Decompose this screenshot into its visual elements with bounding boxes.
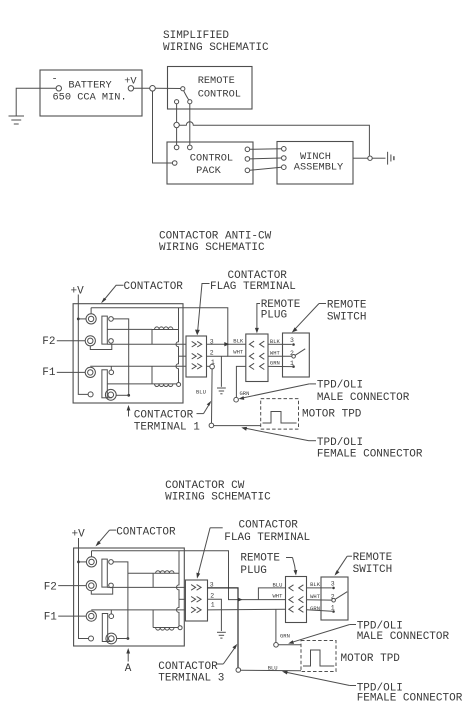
wire terminal1 top stub to inner +V wire <box>90 308 92 314</box>
remote switch box (bot) <box>321 577 348 620</box>
remote switch box (mid) <box>283 333 310 377</box>
contactor flag terminal block (mid) <box>186 336 207 377</box>
svg-text:WHT: WHT <box>310 593 321 600</box>
svg-text:F1: F1 <box>44 612 58 624</box>
plug chevrons row 3 (bot) <box>289 606 304 612</box>
node: inline connector on left drop <box>174 122 179 127</box>
winch assembly box <box>277 142 353 185</box>
svg-text:REMOTE: REMOTE <box>198 75 235 87</box>
contactor coil-end circle terminal (mid) <box>177 383 181 387</box>
svg-text:WHT: WHT <box>270 350 281 357</box>
svg-text:REMOTE: REMOTE <box>353 552 393 564</box>
title: SIMPLIFIED WIRING SCHEMATIC <box>163 30 269 54</box>
svg-text:1: 1 <box>211 602 215 609</box>
wire pack to winch 3 <box>250 167 282 170</box>
wire node to remote control <box>155 87 180 89</box>
TPD/OLI MALE CONNECTOR label (mid) <box>239 380 410 404</box>
TPD/OLI FEMALE CONNECTOR label (bot) <box>282 671 463 705</box>
svg-text:PLUG: PLUG <box>240 565 266 577</box>
junction dot +V to terminal 1 <box>77 318 80 321</box>
winch terminal 2 <box>282 156 287 161</box>
svg-text:REMOTE: REMOTE <box>327 299 367 311</box>
svg-text:FLAG TERMINAL: FLAG TERMINAL <box>224 532 310 544</box>
svg-text:WHT: WHT <box>233 349 244 356</box>
control pack top terminal right <box>188 145 193 150</box>
motor TPD dashed box (mid) <box>261 399 299 430</box>
wire GRN node to motor TPD (bot) <box>278 644 301 646</box>
svg-text:TERMINAL 1: TERMINAL 1 <box>134 422 200 434</box>
contactor terminal F2 big (bot) <box>86 581 96 591</box>
svg-text:SIMPLIFIED: SIMPLIFIED <box>163 30 229 42</box>
wire terminal1 top stub (bot) <box>91 551 93 557</box>
flag chevrons row 2 (mid) <box>192 353 202 359</box>
wire branch to top coil left (bot) <box>128 572 153 574</box>
svg-text:CONTACTOR: CONTACTOR <box>239 520 299 532</box>
stationary contact 2a (bot) <box>109 614 114 619</box>
svg-text:+V: +V <box>71 285 85 297</box>
wire flag2 to ground tap (bot) <box>208 599 222 631</box>
svg-text:ASSEMBLY: ASSEMBLY <box>294 162 343 174</box>
contactor coil-end circle terminal (bot) <box>178 626 182 630</box>
ground (battery) <box>9 116 25 124</box>
svg-text:A: A <box>125 663 132 675</box>
junction dot at bottom terminal wire <box>127 394 130 397</box>
+V rail (bot) <box>79 538 89 639</box>
motor TPD waveform (bot) <box>303 650 334 666</box>
switch blade (bot) <box>335 592 347 600</box>
svg-text:650 CCA MIN.: 650 CCA MIN. <box>53 92 127 104</box>
plug chevrons row 2 (mid) <box>249 353 264 359</box>
svg-text:SWITCH: SWITCH <box>327 311 367 323</box>
switch pin 3 contact (mid) <box>292 343 295 346</box>
remote control switch blade <box>184 91 189 100</box>
switch pin 2 contact (bot) <box>332 598 336 602</box>
contactor terminal F2 big (mid) <box>85 336 95 346</box>
svg-text:F2: F2 <box>44 581 57 593</box>
CONTACTOR label (bot) <box>96 527 177 547</box>
wire row3 bar to flag terminal 3 (bot) <box>107 586 185 588</box>
wire node down to control pack left terminal <box>153 91 173 163</box>
wire plug to switch row1 (mid) <box>268 343 292 345</box>
svg-text:PLUG: PLUG <box>261 309 287 321</box>
wire remote control left contact down <box>176 104 178 123</box>
wire battery positive to node <box>134 87 150 89</box>
svg-text:GRN: GRN <box>280 632 290 639</box>
winch terminal 3 <box>282 165 287 170</box>
contactor terminal +V big (mid) <box>86 314 96 324</box>
node: battery + junction connector <box>150 86 156 92</box>
svg-text:3: 3 <box>290 337 294 344</box>
flag chevrons row 3 (mid) <box>192 341 202 347</box>
svg-text:CONTACTOR: CONTACTOR <box>116 527 176 539</box>
svg-text:CONTROL: CONTROL <box>198 89 241 101</box>
stationary contact 1b (bot) <box>109 583 114 588</box>
CONTACTOR label (mid) <box>101 281 183 303</box>
svg-text:BLK: BLK <box>310 581 321 588</box>
REMOTE SWITCH label (mid) <box>292 299 367 332</box>
wire GRN drop to node (bot) <box>275 609 277 642</box>
stationary contact 1a (bot) <box>109 560 114 565</box>
node: GRN male connector circle (bot) <box>274 643 279 648</box>
control pack top terminal left <box>174 145 179 150</box>
REMOTE PLUG label (mid) <box>255 299 301 333</box>
wire flag3 to plug BLK with arrow (mid) <box>207 343 246 345</box>
plug chevrons row 1 (mid) <box>249 341 264 347</box>
flag chevrons row 1 (mid) <box>192 364 202 370</box>
wire +V junction to terminal 1 <box>78 318 86 320</box>
moving contact bar 2 (bot) <box>102 614 107 642</box>
svg-text:WIRING SCHEMATIC: WIRING SCHEMATIC <box>159 242 265 254</box>
CONTACTOR FLAG TERMINAL label (bot) <box>196 520 310 579</box>
flag chevrons row 2 (bot) <box>191 597 201 603</box>
battery negative terminal <box>56 86 61 91</box>
wire ground node to ground symbol <box>372 157 385 159</box>
battery B1 box <box>40 70 142 116</box>
moving contact bar 2 (mid) <box>102 370 107 398</box>
contactor terminal F1 big (bot) <box>86 611 96 621</box>
remote control contact left <box>175 100 179 104</box>
svg-text:MALE CONNECTOR: MALE CONNECTOR <box>317 392 410 404</box>
contactor bottom-right big terminal (bot) <box>106 633 117 644</box>
svg-text:3: 3 <box>331 581 335 588</box>
svg-text:F2: F2 <box>42 336 55 348</box>
CONTACTOR FLAG TERMINAL label (mid) <box>195 270 296 336</box>
wire pack to winch 1 <box>250 148 282 151</box>
control pack right terminal 2 <box>245 157 250 162</box>
plug chevrons row 3 (mid) <box>249 363 264 369</box>
svg-text:PACK: PACK <box>196 165 222 177</box>
wire bar2 to bottom coil (mid) <box>107 383 152 385</box>
wire F2 (bot) <box>58 585 86 587</box>
wire plug to switch row3 (mid) <box>268 365 292 367</box>
motor TPD waveform (mid) <box>263 412 297 424</box>
contactor terminal +V big (bot) <box>86 557 96 567</box>
wire plug to switch row2 (bot) <box>307 599 332 601</box>
wire long run node to winch ground (hop over x=189.8) <box>179 122 369 156</box>
ground (bot) <box>217 632 226 638</box>
node: terminal 3 connector circle (bot) <box>236 668 241 673</box>
wire row2 bus to flag terminal 2 (bot) <box>179 598 185 600</box>
flag chevrons row 1 (bot) <box>191 607 201 613</box>
winch terminal 1 <box>282 147 287 152</box>
switch pin 2 contact (mid) <box>292 355 296 359</box>
moving contact bar 1 (bot) <box>102 559 107 587</box>
wire contact 1a right and down to bottom terminal <box>113 319 128 395</box>
svg-text:TPD/OLI: TPD/OLI <box>317 380 363 392</box>
remote control common contact <box>181 87 185 91</box>
TPD/OLI FEMALE CONNECTOR label (mid) <box>241 427 423 461</box>
title: CONTACTOR CW WIRING SCHEMATIC <box>165 480 271 503</box>
title: CONTACTOR ANTI-CW WIRING SCHEMATIC <box>159 230 272 253</box>
svg-text:FEMALE CONNECTOR: FEMALE CONNECTOR <box>317 449 423 461</box>
coil bus vertical x=179 with hops (bot) <box>177 551 180 626</box>
svg-text:SWITCH: SWITCH <box>353 564 393 576</box>
svg-text:F1: F1 <box>42 367 56 379</box>
wire dot to bottom-right terminal (bot) <box>117 638 128 640</box>
contactor bottom-left contact circle (bot) <box>89 636 94 641</box>
coil K2 bottom (mid) <box>152 366 177 386</box>
wire flag1 stub to terminal circle (mid) <box>207 365 210 367</box>
A label with arrow (bot) <box>125 648 132 675</box>
contactor bottom-right big terminal (mid) <box>105 389 116 400</box>
svg-text:BATTERY: BATTERY <box>68 79 111 91</box>
node: ground junction right <box>368 156 372 160</box>
wire F1 (mid) <box>57 371 85 373</box>
coil K2 bottom (bot) <box>153 610 178 630</box>
wire inner +V run to plug WHT (drops at x=227.8) <box>91 308 246 357</box>
switch pin 3 contact (bot) <box>332 587 335 590</box>
svg-text:WHT: WHT <box>273 593 284 600</box>
wire row2 bus to flag terminal 2 (mid) <box>179 355 187 357</box>
ground tap vertical (mid) <box>220 356 222 387</box>
node: GRN male connector circle (mid) <box>234 397 239 402</box>
+V rail (mid) <box>78 295 88 395</box>
svg-text:CONTACTOR: CONTACTOR <box>124 281 184 293</box>
switch pin 1 contact (mid) <box>292 365 295 368</box>
ground (winch, chassis bars) <box>388 152 394 165</box>
svg-text:TERMINAL 3: TERMINAL 3 <box>158 673 224 685</box>
CONTACTOR TERMINAL 1 label <box>127 401 212 434</box>
svg-text:GRN: GRN <box>240 390 250 397</box>
wire plug to switch row3 (bot) <box>307 610 333 611</box>
coil bus vertical x=178.5 with hops (mid) <box>176 308 179 383</box>
remote plug box (mid) <box>246 334 268 382</box>
wire row3 bar to flag terminal 3 (mid) <box>107 343 186 345</box>
wire bar2 bottom link (bot) <box>108 641 112 643</box>
stationary contact 1b (mid) <box>109 339 114 344</box>
REMOTE PLUG label (bot) <box>240 552 297 577</box>
svg-text:MOTOR TPD: MOTOR TPD <box>341 653 401 665</box>
svg-text:BLU: BLU <box>196 389 206 396</box>
switch pin 1 contact (bot) <box>332 610 335 613</box>
junction dot at bottom terminal wire (bot) <box>127 637 130 640</box>
control pack right terminal 3 <box>245 168 250 173</box>
svg-text:CONTACTOR ANTI-CW: CONTACTOR ANTI-CW <box>159 230 272 242</box>
svg-text:CONTROL: CONTROL <box>190 153 233 165</box>
node: female connector circle (mid) <box>209 423 214 428</box>
wire terminal F2 L-link to bar1 bottom (bot) <box>91 587 112 594</box>
wire contact 1a right, down, feeds coil and bottom terminal (bot) <box>113 562 128 639</box>
contactor box (bot) <box>74 548 185 646</box>
wire F2 (mid) <box>57 340 85 342</box>
stationary contact 2a stub (mid) <box>110 366 112 370</box>
svg-text:REMOTE: REMOTE <box>240 552 280 564</box>
svg-text:WIRING SCHEMATIC: WIRING SCHEMATIC <box>163 42 269 54</box>
REMOTE SWITCH label (bot) <box>335 552 393 576</box>
svg-text:BLU: BLU <box>273 582 283 589</box>
stationary contact 2a (mid) <box>109 370 114 375</box>
svg-text:CONTACTOR: CONTACTOR <box>134 410 194 422</box>
arrowhead on WHT feed wire (bot) <box>238 597 243 601</box>
ground (mid) <box>217 388 226 394</box>
wire plug to switch row1 (bot) <box>307 587 332 589</box>
svg-text:MALE CONNECTOR: MALE CONNECTOR <box>357 631 450 643</box>
stationary contact 1a (mid) <box>109 317 114 322</box>
coil K1 top (bot) <box>153 571 179 588</box>
battery positive terminal <box>128 86 133 91</box>
control pack right terminal 1 <box>245 147 250 152</box>
wire connector to control pack terminal <box>176 128 178 145</box>
stationary contact 2a stub (bot) <box>110 610 112 614</box>
node: contactor terminal 1 connector circle <box>210 364 215 369</box>
wire flag1 to plug GRN row (bot) <box>208 608 286 611</box>
wire +V junction to terminal 1 (bot) <box>79 561 87 563</box>
control pack box <box>167 142 253 184</box>
contactor terminal F1 big (mid) <box>85 367 95 377</box>
remote control box <box>168 67 253 110</box>
svg-text:2: 2 <box>210 593 214 600</box>
motor TPD dashed box (bot) <box>301 641 336 672</box>
CONTACTOR TERMINAL 3 label (bot) <box>158 644 237 685</box>
BLU wire vertical (mid) <box>211 369 214 423</box>
wire row1 F1 to flag terminal 1 (bot) <box>91 609 185 611</box>
switch blade (mid) <box>295 349 305 355</box>
svg-text:MOTOR TPD: MOTOR TPD <box>302 408 362 420</box>
remote plug box (bot) <box>286 577 307 623</box>
remote control contact right <box>188 100 192 104</box>
svg-text:2: 2 <box>210 350 214 357</box>
svg-text:CONTACTOR: CONTACTOR <box>158 661 218 673</box>
svg-text:FEMALE CONNECTOR: FEMALE CONNECTOR <box>357 693 463 705</box>
wire remote control right contact down to control pack <box>189 104 191 145</box>
wire inner +V run, drop at x=228.5, to plug WHT (bot) <box>92 551 286 600</box>
TPD/OLI MALE CONNECTOR label (bot) <box>288 620 449 644</box>
contactor bottom-left contact circle (mid) <box>88 392 93 397</box>
svg-text:-: - <box>52 74 58 86</box>
svg-text:WIRING SCHEMATIC: WIRING SCHEMATIC <box>165 491 271 503</box>
flag chevrons row 3 (bot) <box>191 585 201 591</box>
control pack left terminal <box>172 161 177 166</box>
svg-text:BLU: BLU <box>268 665 278 672</box>
wire terminal F2 L-link to bar1 bottom <box>90 344 112 349</box>
wire pack to winch 2 <box>250 157 282 160</box>
wire node to motor TPD (mid) <box>214 425 261 427</box>
plug chevrons row 2 (bot) <box>289 597 304 603</box>
svg-text:FLAG TERMINAL: FLAG TERMINAL <box>210 281 296 293</box>
junction dot +V to terminal 1 (bot) <box>77 561 80 564</box>
wire plug to switch row2 (mid) <box>268 355 292 357</box>
wire flag3 right then down to node (bot) <box>208 588 239 668</box>
BLU wire node to motor TPD corner (bot) <box>241 669 301 672</box>
wire row1 F1 to flag terminal 1 (mid) <box>90 365 186 367</box>
wire flag2 to ground tap and on to plug WHT (mid) <box>207 355 228 357</box>
svg-text:TPD/OLI: TPD/OLI <box>317 437 363 449</box>
contactor box (mid) <box>73 304 183 403</box>
wire battery negative to ground <box>16 88 56 115</box>
wire winch to ground node <box>353 157 368 159</box>
wire branch up to plug BLU (bot) <box>258 588 285 600</box>
wire bar1 to top coil left <box>107 328 152 330</box>
svg-text:BLK: BLK <box>233 338 244 345</box>
plug chevrons row 1 (bot) <box>289 585 304 591</box>
svg-text:GRN: GRN <box>270 360 280 367</box>
moving contact bar 1 (mid) <box>102 316 107 344</box>
wire bar2 bottom link (mid) <box>107 397 112 399</box>
wire F1 (bot) <box>58 615 86 617</box>
contactor flag terminal block (bot) <box>185 580 207 621</box>
wire dot to bottom-right terminal <box>116 394 129 396</box>
coil K1 top (mid) <box>152 327 179 344</box>
wire plug GRN to node (mid) <box>236 366 245 397</box>
